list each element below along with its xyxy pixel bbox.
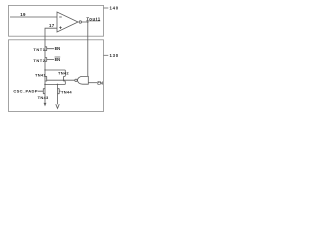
minus sign: [59, 16, 62, 18]
ground arrow left: [44, 103, 47, 107]
svg-text:EN: EN: [55, 46, 61, 51]
wire: drain rail to TN42: [45, 69, 65, 71]
svg-text:TN44: TN44: [61, 90, 72, 95]
svg-text:140: 140: [110, 6, 119, 11]
ground arrow right: [56, 104, 59, 108]
wire: NAND lower input: [88, 82, 97, 84]
node: output branch junction: [87, 21, 89, 23]
node source rail left: [44, 84, 46, 86]
label ENB overline: [55, 56, 61, 58]
pin tick 130: [104, 54, 109, 56]
wire: comparator plus input: [45, 28, 57, 46]
svg-text:EN: EN: [55, 57, 61, 62]
transistor TN42: [64, 70, 66, 84]
node TN42 gate junction: [63, 79, 65, 81]
transistor TN43: [38, 89, 45, 94]
op-amp U1 comparator triangle: [57, 12, 78, 32]
output bubble: [79, 21, 81, 23]
node source rail right: [57, 84, 59, 86]
wire: comparator output: [82, 21, 101, 22]
pin tick 140: [104, 7, 109, 9]
plus sign: [59, 26, 62, 29]
block 140 box: [9, 5, 104, 36]
block 130 box: [9, 40, 104, 112]
svg-text:Tout1: Tout1: [86, 16, 100, 21]
NAND gate U2 mirrored: [78, 76, 89, 84]
wire: main vertical column: [44, 47, 46, 104]
wire: Tout1 down to gate: [87, 22, 89, 76]
svg-text:CSC_PADP: CSC_PADP: [13, 89, 37, 94]
wire: gate line from TN41 to NAND output: [47, 79, 75, 81]
svg-text:17: 17: [49, 23, 55, 28]
transistor TN41: [45, 76, 47, 81]
svg-text:TN43: TN43: [38, 95, 49, 100]
svg-text:TNT1: TNT1: [33, 47, 45, 52]
wire: source rail: [45, 83, 65, 85]
svg-text:19: 19: [20, 12, 26, 17]
node tee junction: [44, 69, 45, 70]
transistor TNT1: [45, 47, 54, 51]
svg-text:EN: EN: [97, 80, 103, 85]
NAND output bubble: [75, 79, 77, 81]
svg-text:TNT2: TNT2: [33, 58, 45, 63]
wire: TN44 drain drop: [57, 84, 59, 104]
svg-text:TN41: TN41: [35, 73, 46, 78]
wire: comparator top input: [10, 16, 57, 18]
svg-text:TN42: TN42: [58, 71, 69, 76]
transistor TNT2: [45, 57, 54, 61]
svg-text:130: 130: [110, 53, 119, 58]
transistor TN44: [58, 89, 61, 94]
